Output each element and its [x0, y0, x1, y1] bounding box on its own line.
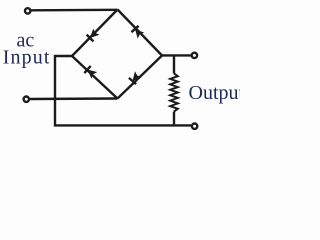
- terminal: output top: [192, 53, 197, 58]
- terminal: AC input bottom: [24, 97, 29, 102]
- diode D1 upper-left bridge arm: [72, 10, 118, 57]
- wire: bottom AC input to bridge bottom node: [30, 97, 117, 100]
- diode D2 upper-right bridge arm: [118, 10, 163, 56]
- svg-text:Output: Output: [189, 82, 241, 104]
- terminal: output bottom: [192, 124, 197, 129]
- resistor: load across output: [170, 56, 178, 126]
- wire: top AC input to bridge top node: [31, 9, 117, 12]
- diode D3 lower-left bridge arm: [72, 56, 118, 99]
- svg-text:Input: Input: [3, 47, 51, 69]
- diode D4 lower-right bridge arm: [118, 56, 163, 99]
- terminal: AC input top: [25, 8, 30, 13]
- wire: bridge left node to bottom rail (crosses AC wire): [55, 56, 191, 125]
- wire: bridge right node to output top terminal: [162, 54, 191, 56]
